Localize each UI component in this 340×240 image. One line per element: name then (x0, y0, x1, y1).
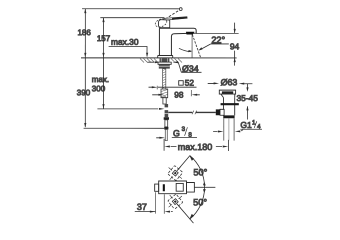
aerator (186, 32, 195, 35)
label Ø63 (214, 82, 220, 84)
svg-text:max.30: max.30 (111, 37, 139, 47)
pop-up rod to drain (168, 111, 192, 113)
dimension 35-45 (246, 84, 248, 88)
open lever dashed line (162, 10, 180, 21)
hose pipe (165, 120, 168, 127)
deck line (81, 57, 237, 59)
svg-text:157: 157 (97, 34, 111, 43)
22 deg arc arrow (179, 48, 191, 51)
arc end arrows (189, 155, 194, 160)
svg-text:35-45: 35-45 (237, 93, 259, 103)
apex arrows (203, 182, 206, 186)
threaded rod (163, 69, 166, 89)
drain taper (221, 94, 224, 98)
faucet base flange (158, 55, 173, 58)
drain lower nut (223, 115, 234, 118)
svg-text:Ø63: Ø63 (221, 77, 238, 87)
label square52 with leader (179, 81, 184, 86)
spout stub (155, 184, 159, 191)
lever blade (164, 17, 187, 21)
svg-text:max.180: max.180 (178, 142, 213, 152)
short pipe (163, 98, 166, 104)
svg-text:37: 37 (137, 202, 147, 212)
lever centerline (194, 186, 215, 188)
dimension 94 (234, 23, 236, 33)
extension line top (186 ref, open lever) (82, 8, 179, 10)
swing arc 50deg (190, 155, 205, 219)
band (164, 127, 168, 130)
stream 22 deg line (192, 35, 200, 58)
svg-text:G1: G1 (240, 120, 252, 130)
shank block under deck (160, 58, 170, 62)
svg-text:300: 300 (92, 84, 106, 93)
svg-text:50°: 50° (193, 197, 207, 207)
radial line lower (177, 204, 194, 223)
max.30 leader (109, 46, 147, 56)
dimension 98 (190, 90, 192, 96)
dimension line 186/390 (left vertical A) (84, 9, 86, 127)
drain pipe upper (223, 98, 225, 110)
upper 50deg diamond (163, 161, 188, 186)
pivot mark (163, 184, 165, 191)
svg-text:Ø34: Ø34 (182, 64, 199, 74)
spout height extension line (196, 33, 238, 35)
svg-text:3: 3 (182, 126, 186, 133)
svg-text:50°: 50° (193, 167, 207, 177)
svg-text:186: 186 (77, 28, 91, 37)
max300 extension line (97, 108, 158, 110)
cap (164, 117, 169, 120)
hose tail G3/8 (165, 129, 167, 140)
lower 50deg diamond (163, 189, 188, 214)
open lever knob circle (179, 8, 182, 11)
390 extension line (84, 127, 164, 129)
dimension line 157/max300 (left vertical B) (102, 18, 104, 109)
svg-text:390: 390 (77, 88, 91, 97)
ball housing (216, 109, 220, 115)
knob swing dashed ellipse (154, 17, 168, 28)
drain tailpipe (223, 118, 225, 140)
faucet body and spout outline (159, 28, 196, 55)
radial line upper (177, 156, 190, 171)
drain upper nut (221, 103, 239, 105)
label G1 1/4 with leader (213, 131, 217, 133)
svg-text:G: G (173, 128, 180, 138)
svg-text:52: 52 (185, 78, 195, 88)
deck hatch (140, 58, 182, 62)
lever tip rect (186, 183, 194, 193)
dimension 37 (155, 192, 157, 213)
lever knob (158, 20, 169, 28)
washer (158, 62, 171, 64)
svg-text:4: 4 (257, 123, 261, 130)
extension line 157 ref (100, 17, 164, 19)
plan body (159, 181, 187, 194)
svg-text:max.: max. (92, 75, 109, 84)
drain flange (219, 90, 235, 94)
stream vertical reference (191, 35, 193, 58)
label Ø34 with leader (155, 61, 161, 63)
hex fitting (161, 89, 168, 98)
cartridge square (176, 183, 183, 191)
rod break marks (192, 111, 194, 115)
pivot block (165, 110, 169, 117)
dimension max.180 (163, 139, 165, 151)
svg-text:94: 94 (230, 41, 240, 51)
mounting nut (159, 64, 170, 68)
upper hose seg (165, 104, 169, 107)
svg-text:98: 98 (174, 90, 184, 100)
